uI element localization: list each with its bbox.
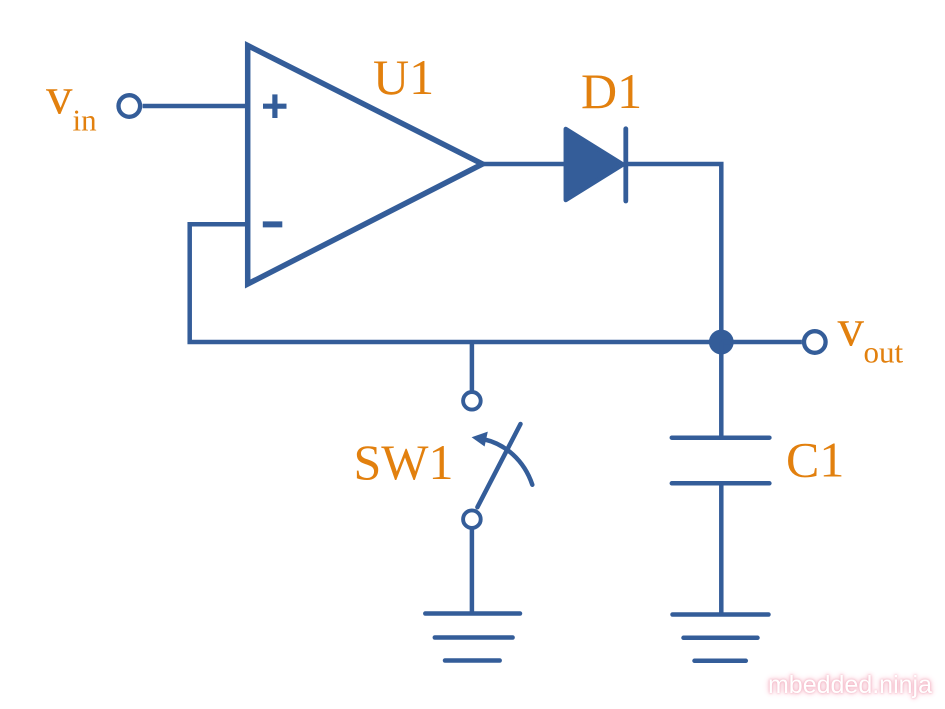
watermark mbedded.ninja (768, 671, 932, 700)
wire capacitor to ground (719, 483, 724, 613)
node junction dot (709, 330, 734, 355)
op-amp + symbol (263, 94, 287, 118)
wire op-amp output to diode (483, 162, 567, 167)
wire diode to output node (626, 164, 722, 342)
svg-text:U1: U1 (373, 49, 434, 105)
switch SW1 blade (477, 424, 520, 507)
op-amp - symbol (263, 221, 283, 227)
node v_in terminal (119, 95, 141, 117)
svg-text:out: out (864, 335, 904, 370)
diode D1 (566, 129, 623, 200)
svg-text:v: v (46, 68, 73, 126)
wire node to v_out terminal (721, 340, 802, 345)
node v_out terminal (804, 331, 826, 353)
svg-text:v: v (838, 300, 865, 358)
switch SW1 actuation arc (484, 439, 532, 484)
wire feedback from - input down and along bottom to output node (190, 224, 722, 342)
switch SW1 bottom contact (463, 510, 481, 528)
switch SW1 arrowhead (472, 432, 488, 447)
svg-text:in: in (73, 103, 98, 138)
ground (capacitor) (673, 615, 769, 661)
wire node down to capacitor (719, 342, 724, 438)
wire switch to ground (470, 528, 475, 613)
svg-text:D1: D1 (581, 63, 642, 119)
capacitor C1 (672, 438, 770, 484)
ground (switch) (425, 614, 520, 661)
svg-text:SW1: SW1 (354, 434, 454, 490)
wire switch stub from bottom wire (470, 342, 475, 391)
wire vin to op-amp + input (143, 104, 248, 109)
op-amp U1 (248, 46, 483, 285)
svg-text:C1: C1 (786, 432, 844, 488)
switch SW1 top contact (463, 392, 481, 410)
